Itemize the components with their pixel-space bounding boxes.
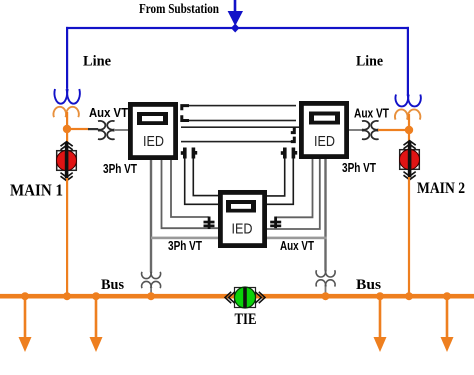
IED U2: right IED box [301,103,346,156]
wire: station bus link 3 [181,126,299,128]
wire: 3Ph VT thick run from left VT line to IED3 [151,237,218,240]
connector: link2 plug at IED1 [182,115,189,120]
wire: right Line vertical (blue) [407,27,409,95]
wire: IED2 plug line A down and left to IED3 [267,159,285,196]
node: bus dot 5 (right bus VT) [322,292,330,300]
wire: orange branch to left Aux VT [67,128,89,130]
wire: dark segment into left Aux VT [88,128,98,130]
transformer: left line CT secondary (orange winding) [53,107,78,117]
wire: station bus link 2 [181,120,296,122]
feeder arrow 2 [90,296,103,352]
svg-text:MAIN 2: MAIN 2 [417,180,465,197]
node: bus dot 7 (MAIN2 feeder) [405,292,413,300]
svg-text:Line: Line [356,54,383,70]
wire: IED1 bottom line 2 (to IED3 left, lower) [162,160,219,228]
IED U3: display [226,200,256,213]
transformer: right line CT primary (blue winding) [395,95,420,107]
svg-text:Line: Line [83,54,111,70]
connector: splice at IED3 right [270,217,281,230]
bus: main orange bus bar [0,294,474,299]
wire: left Line vertical (blue) [66,27,68,89]
wire: IED2 bottom line 1 (to splice at IED3 right) [277,159,313,217]
breaker: TIE left chevrons [225,292,235,303]
wire: IED1 bottom line 1 (3Ph VT main, to bus VT) [150,160,152,272]
breaker: TIE square [235,288,256,308]
wire: IED2 plug line B down and left to IED3 [267,159,293,205]
node: bus dot 6 [376,292,384,300]
node: bus dot 3 [92,292,100,300]
transformer: right bus VT windings [316,270,335,286]
wire: right feeder orange vertical (breaker to bus) [408,177,410,296]
svg-text:3Ph VT: 3Ph VT [103,162,137,176]
feeder arrow 3 [374,296,387,352]
IED U1: left IED box [130,104,175,157]
wire: IED2 bottom line 2 (to IED3 right, lower) [267,159,320,229]
connector: link3 plug at IED2 [291,127,295,132]
svg-text:3Ph VT: 3Ph VT [168,239,202,253]
wire: station bus link 1 (IED1 to IED2) [181,105,296,107]
feeder arrow 1 [19,296,32,352]
breaker: MAIN 1 upper chevrons [61,142,73,150]
wire: orange branch right Aux VT to feeder [378,129,409,131]
wire: left bus VT tail to bus [150,288,152,296]
wire: IED1 bottom line 3 (to splice at IED3 left) [171,160,209,217]
breaker: TIE right chevrons [255,292,265,303]
wire: IED2 bottom line 3 (Aux VT main, to bus VT) [324,159,326,270]
svg-text:IED: IED [232,221,253,238]
wire: gray segment left Aux VT to IED1 [114,129,128,131]
transformer: left bus VT windings [142,272,161,288]
wire: right bus VT tail to bus [325,287,327,296]
wire: Aux VT thick run from IED3 to right VT line [267,237,327,240]
svg-text:TIE: TIE [235,311,257,328]
node: bus dot 8 [443,292,451,300]
node: junction diamond on top blue line [231,24,240,33]
breaker: TIE black bar [243,287,247,308]
IED U2: display [309,112,340,125]
node: right feeder junction dot [405,126,413,134]
wire: top horizontal blue line [66,27,409,29]
breaker: TIE green circle [235,287,256,308]
IED U3: center IED box [220,192,264,245]
connector: plug pair below-right of IED1 [181,148,197,159]
node: bus dot 1 [21,292,29,300]
svg-text:Aux VT: Aux VT [89,106,128,120]
svg-text:IED: IED [143,133,164,150]
transformer: left Aux VT windings [98,121,115,139]
svg-text:Aux VT: Aux VT [354,107,389,121]
breaker: MAIN 2 red circle [400,150,420,170]
wire: gray segment IED2 to right Aux VT [349,129,362,131]
svg-text:Bus: Bus [101,277,124,293]
svg-text:Bus: Bus [356,277,381,293]
wire: right feeder orange vertical (CT to breaker) [408,114,410,150]
transformer: right line CT secondary (orange winding) [395,109,420,119]
wire: IED1 plug line B down and right to IED3 [193,159,218,196]
svg-text:IED: IED [314,133,335,150]
breaker: MAIN 1 square [57,151,77,171]
transformer: right Aux VT windings [362,121,379,139]
wire: IED1 plug line A down and right to IED3 [185,159,218,205]
node: bus dot 2 (MAIN1 feeder) [63,292,71,300]
wire: left feeder orange vertical (breaker to bus) [66,178,68,296]
wire: station bus link 4 [181,141,292,143]
wire: incoming feeder from substation (blue arrow shaft) [234,0,237,12]
breaker: MAIN 1 red circle [57,151,77,171]
breaker: MAIN 1 black bar [65,143,69,179]
svg-text:Aux VT: Aux VT [280,239,314,253]
connector: link4 plug at IED2 [291,137,295,142]
node: feeder arrowhead [228,11,243,26]
breaker: MAIN 1 lower chevrons [61,173,73,181]
breaker: MAIN 2 square [400,150,420,170]
IED U1: display [137,112,168,125]
breaker: MAIN 2 upper chevrons [404,141,416,149]
wire: left feeder orange vertical (CT to breaker) [66,112,68,150]
connector: plug pair below-left of IED2 [281,148,297,159]
svg-text:From Substation: From Substation [139,1,219,16]
node: left feeder junction dot [63,125,71,133]
node: bus dot 4 (left bus VT) [147,292,155,300]
feeder arrow 4 [441,296,454,352]
breaker: MAIN 2 lower chevrons [404,172,416,180]
svg-text:MAIN 1: MAIN 1 [10,181,63,200]
svg-text:3Ph VT: 3Ph VT [342,161,376,175]
connector: splice at IED3 left [204,217,215,230]
breaker: MAIN 2 black bar [408,142,412,178]
connector: link1 plug at IED1 [182,106,189,111]
transformer: left line CT primary (blue winding) [54,89,79,104]
